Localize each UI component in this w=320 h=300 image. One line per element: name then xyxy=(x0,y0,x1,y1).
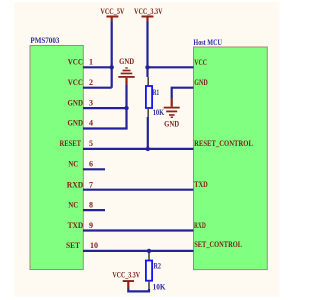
svg-text:GND: GND xyxy=(194,78,208,87)
power GND symbol top xyxy=(118,57,134,85)
svg-text:7: 7 xyxy=(89,180,93,189)
svg-text:PMS7003: PMS7003 xyxy=(30,36,59,45)
wire R1 bottom to RESET net xyxy=(147,117,149,149)
svg-text:2: 2 xyxy=(89,78,93,87)
svg-text:R2: R2 xyxy=(154,262,162,271)
wire pin8 NC stub xyxy=(83,209,105,211)
svg-text:1: 1 xyxy=(89,57,93,66)
component PMS7003 body xyxy=(30,46,83,270)
svg-text:RESET: RESET xyxy=(60,139,82,148)
svg-text:RESET_CONTROL: RESET_CONTROL xyxy=(194,139,253,148)
svg-text:VCC: VCC xyxy=(194,58,207,67)
power VCC_3.3V stem top xyxy=(146,18,148,22)
junction host VCC/R1 column xyxy=(145,65,149,69)
svg-text:3: 3 xyxy=(89,98,93,107)
wire pin1 VCC xyxy=(83,66,112,68)
wire pin7 RXD to TXD xyxy=(83,189,194,191)
junction SET/R2 xyxy=(147,249,151,253)
wire pin4 GND xyxy=(83,127,128,129)
svg-text:SET_CONTROL: SET_CONTROL xyxy=(194,240,242,249)
svg-text:4: 4 xyxy=(89,119,93,128)
svg-text:10K: 10K xyxy=(153,283,167,292)
power GND symbol right xyxy=(164,98,180,129)
junction pin1/VCC_5V xyxy=(110,65,114,69)
svg-text:10K: 10K xyxy=(153,108,165,117)
svg-text:5: 5 xyxy=(89,139,93,148)
svg-text:TXD: TXD xyxy=(194,180,208,189)
svg-text:VCC_3.3V: VCC_3.3V xyxy=(112,271,140,280)
svg-text:RXD: RXD xyxy=(67,180,84,189)
svg-text:SET: SET xyxy=(66,241,81,250)
svg-text:Host MCU: Host MCU xyxy=(193,38,222,47)
wire VCC_3.3V vertical down to R1 xyxy=(146,22,148,78)
resistor R2 xyxy=(146,251,152,290)
wire pin2 VCC xyxy=(83,87,112,89)
svg-text:VCC_3.3V: VCC_3.3V xyxy=(134,7,163,16)
wire pin5 RESET to RESET_CONTROL xyxy=(83,148,194,150)
svg-text:GND: GND xyxy=(68,98,84,107)
wire R2 bottom elbow to VCC_3.3V xyxy=(128,289,149,292)
svg-text:RXD: RXD xyxy=(194,221,206,230)
power VCC_5V stem xyxy=(111,18,113,22)
svg-text:6: 6 xyxy=(89,160,93,169)
wire VCC_5V vertical to pins 1-2 xyxy=(111,22,113,88)
svg-text:TXD: TXD xyxy=(68,221,84,230)
svg-text:GND: GND xyxy=(68,119,84,128)
power VCC_5V bar xyxy=(106,16,118,18)
svg-text:GND: GND xyxy=(164,120,179,129)
wire GND top vertical to pins 3-4 xyxy=(125,85,127,129)
junction RESET/R1 xyxy=(146,147,150,151)
wire pin6 NC stub xyxy=(83,168,105,170)
svg-text:R1: R1 xyxy=(153,88,160,97)
power VCC_3.3V bar bottom xyxy=(123,280,134,282)
wire host GND elbow xyxy=(172,88,194,98)
wire pin9 TXD to RXD xyxy=(83,229,194,231)
svg-text:9: 9 xyxy=(89,221,93,230)
svg-text:8: 8 xyxy=(89,200,93,209)
svg-text:GND: GND xyxy=(119,57,134,66)
wire pin3 GND xyxy=(83,107,127,109)
svg-text:NC: NC xyxy=(68,200,78,209)
resistor R1 xyxy=(146,77,152,117)
svg-text:10: 10 xyxy=(90,241,98,250)
power VCC_3.3V stem bottom xyxy=(127,282,129,289)
svg-text:VCC_5V: VCC_5V xyxy=(100,7,124,16)
svg-text:VCC: VCC xyxy=(68,57,83,66)
wire host VCC horizontal xyxy=(148,66,194,68)
svg-text:VCC: VCC xyxy=(68,78,83,87)
svg-text:NC: NC xyxy=(68,160,78,169)
power VCC_3.3V bar top xyxy=(142,16,154,18)
junction pin3/GND column xyxy=(124,106,128,110)
wire pin10 SET to SET_CONTROL xyxy=(83,250,194,252)
component Host MCU body xyxy=(194,47,268,270)
